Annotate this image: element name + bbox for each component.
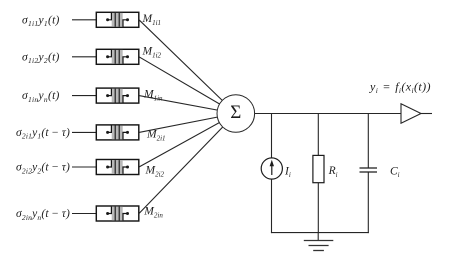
label M1i2 (142, 46, 162, 60)
wire M2i2 to summer (139, 114, 236, 168)
memristor M1in (96, 88, 139, 103)
wire M1in to summer (139, 96, 236, 114)
wire M2i1 to summer (139, 114, 236, 133)
wire M1i2 to summer (139, 57, 236, 114)
label M1i1 (142, 13, 162, 27)
wire branch Ri bottom (317, 183, 319, 233)
current source Ii (261, 158, 282, 179)
wire branch Ii top (271, 114, 273, 159)
summing junction U1 (sigma circle) (217, 95, 255, 133)
wire ground stub (317, 233, 319, 241)
resistor Ri (313, 155, 324, 182)
wire input 6 (72, 213, 96, 215)
input label sigma_2i1 y1(t-tau) (16, 127, 70, 141)
label M2in (143, 205, 163, 219)
input label sigma_1i2 y2(t) (22, 51, 60, 65)
input label sigma_2in yn(t-tau) (16, 208, 70, 222)
label Ii (284, 165, 291, 179)
memristor M2i1 (96, 125, 139, 140)
wire M2in to summer (139, 114, 236, 214)
wire summer to buffer (255, 113, 401, 115)
memristor M1i2 (96, 49, 139, 64)
wire branch Ci top (367, 114, 369, 168)
input label sigma_2i2 y2(t-tau) (16, 162, 70, 176)
label M2i2 (145, 165, 165, 179)
label M2i1 (146, 128, 166, 142)
wire branch Ri top (317, 114, 319, 156)
wire buffer output (421, 113, 432, 115)
wire input 2 (72, 56, 96, 58)
capacitor Ci (360, 168, 378, 172)
buffer amplifier (401, 104, 421, 124)
memristor M1i1 (96, 12, 139, 27)
input label sigma_1i1 y1(t) (22, 14, 60, 28)
wire branch Ci bottom (367, 173, 369, 234)
memristor M2i2 (96, 160, 139, 175)
svg-text:σ1i1y1(t): σ1i1y1(t) (22, 14, 60, 28)
label Ci (390, 166, 400, 180)
label Ri (328, 165, 338, 179)
wire input 4 (72, 131, 96, 133)
memristor M2in (96, 206, 139, 221)
svg-text:σ1i2y2(t): σ1i2y2(t) (22, 51, 60, 65)
wire branch Ii bottom (271, 179, 273, 233)
wire input 5 (72, 166, 96, 168)
wire input 1 (72, 19, 96, 21)
label M1in (143, 88, 163, 102)
input label sigma_1in yn(t) (22, 90, 60, 104)
ground (304, 241, 334, 251)
svg-text:Σ: Σ (230, 102, 241, 123)
wire bottom rail (271, 232, 369, 234)
output label yi = fi(xi(t)) (369, 79, 431, 95)
svg-text:σ1inyn(t): σ1inyn(t) (22, 90, 60, 104)
wire M1i1 to summer (139, 20, 236, 114)
wire input 3 (72, 95, 96, 97)
